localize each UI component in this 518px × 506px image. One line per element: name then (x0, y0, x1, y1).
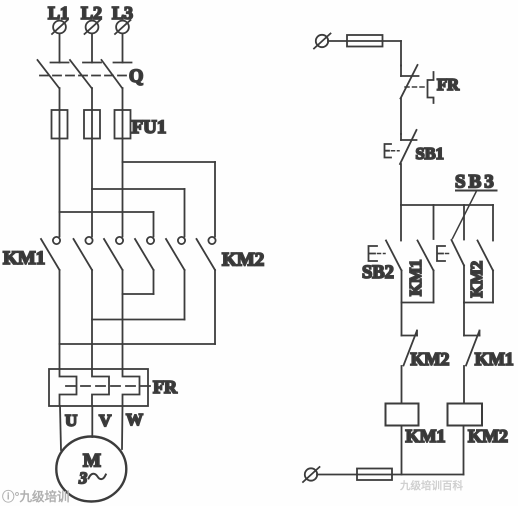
coil KM1 (386, 404, 419, 426)
svg-text:KM2: KM2 (411, 349, 450, 369)
contact KM2 interlock (NC) (402, 331, 418, 366)
svg-text:KM1: KM1 (3, 248, 45, 269)
wire L3 to switch (122, 34, 124, 63)
label KM2 aux (rotated) (467, 261, 486, 298)
watermark bottom-right (399, 479, 463, 492)
wire coil KM1 to bottom rail (401, 426, 403, 475)
svg-text:ⓘ°九级培训: ⓘ°九级培训 (2, 489, 70, 504)
switch Q mechanical link (dashed) (40, 75, 131, 77)
label SB3 with underline and pointer (453, 172, 497, 239)
label SB2 (362, 263, 394, 283)
wire KM1 interlock to coil (463, 366, 465, 404)
svg-text:3: 3 (78, 469, 87, 488)
button SB3 (NO pushbutton) (437, 240, 464, 266)
wire bottom rail (392, 474, 464, 476)
wire KM2 out 1 merge (123, 270, 154, 294)
wire terminal to fuse FU3 (317, 474, 357, 476)
svg-text:SB2: SB2 (362, 263, 394, 283)
wire rail drop KM1 aux (433, 205, 435, 239)
terminal L3 (115, 20, 131, 34)
contactor KM2 main contact 2 (166, 237, 185, 270)
wire rail drop SB2 (400, 205, 402, 241)
svg-text:V: V (99, 411, 112, 430)
contactor KM1 main contact 1 (41, 237, 60, 270)
contactor KM1 main contact 3 (104, 237, 123, 270)
label U (65, 411, 77, 430)
wire pole1 to fuse (59, 88, 61, 110)
FR mechanical link (dashed) (66, 385, 152, 387)
wire fuse to control column (383, 41, 402, 66)
wire SB2 branch join (402, 271, 434, 303)
wire terminal to fuse FU2 (328, 40, 347, 42)
wire FR to motor U (60, 406, 61, 450)
watermark bottom-left (2, 489, 70, 504)
fuse FU1-3 (115, 110, 131, 139)
terminal L2 (85, 20, 101, 34)
wire KM1 out 3 down to FR (122, 270, 124, 369)
fuse FU2 (347, 35, 383, 47)
wire FR to motor W (121, 406, 124, 449)
svg-text:Q: Q (129, 67, 143, 87)
wire FR to SB1 (400, 99, 402, 135)
label coil KM1 (406, 426, 446, 446)
terminal L1 (52, 20, 68, 34)
wire SB3 branch join (464, 266, 493, 303)
wire KM2 out 2 merge (92, 270, 185, 320)
wire phase A down to KM1 contact 1 (59, 139, 61, 237)
svg-text:KM1: KM1 (406, 259, 425, 296)
wire phase C down to KM1 contact 3 (122, 139, 124, 237)
contact KM1 aux (NO) (418, 241, 434, 271)
fuse FU1-2 (84, 110, 100, 139)
wire KM2 out 3 merge (60, 270, 216, 344)
FR heater element 3 (123, 369, 140, 406)
button SB2 (NO pushbutton) (369, 241, 402, 271)
fuse FU3 (357, 469, 392, 481)
svg-text:KM2: KM2 (222, 250, 264, 271)
label KM1 (3, 248, 45, 269)
svg-text:KM2: KM2 (468, 426, 508, 446)
contact KM1 interlock (NC) (464, 331, 480, 366)
contactor KM1 main contact 2 (74, 237, 93, 270)
wire KM1 out 1 down to FR (59, 270, 61, 369)
node L3 (112, 3, 133, 23)
label FU1 (132, 117, 167, 138)
wire KM1 out 2 down to FR (91, 270, 93, 369)
label KM2 (222, 250, 264, 271)
contact FR (NC, thermal) (401, 65, 419, 99)
FR heater element 1 (60, 369, 77, 406)
svg-text:KM1: KM1 (475, 349, 514, 369)
wire tap phase B to KM2 pole 2 (92, 189, 185, 237)
svg-text:KM1: KM1 (406, 426, 446, 446)
label KM1 aux (rotated) (406, 259, 425, 296)
wire rail drop KM2 aux (492, 205, 494, 241)
switch Q pole 1 (38, 60, 69, 88)
wire pole2 to fuse (91, 88, 93, 110)
svg-text:U: U (65, 411, 77, 430)
label W (126, 410, 143, 429)
FR heater element 2 (92, 369, 109, 406)
thermal relay FR box (49, 369, 148, 406)
fuse FU1-1 (52, 110, 68, 139)
contact KM2 aux (NO) (478, 241, 494, 271)
wire coil KM2 to bottom rail (463, 426, 465, 475)
svg-text:FR: FR (153, 377, 178, 397)
control terminal top (314, 34, 331, 49)
svg-text:FR: FR (437, 75, 460, 94)
switch Q pole 3 (102, 60, 132, 88)
motor M circle (56, 437, 126, 502)
label SB1 (416, 144, 444, 163)
contactor KM2 main contact 1 (135, 237, 154, 270)
contactor KM2 main contact 3 (197, 237, 216, 270)
label KM2 interlock (411, 349, 450, 369)
coil KM2 (448, 404, 483, 426)
label FR (control) (437, 75, 460, 94)
label M 3~ (78, 451, 106, 488)
wire tap phase C to KM2 pole 3 (123, 162, 216, 237)
control terminal bottom (303, 467, 320, 482)
label FR (153, 377, 178, 397)
FR trip actuator bracket (405, 72, 434, 103)
wire L1 to switch (59, 34, 61, 63)
svg-text:SB1: SB1 (416, 144, 444, 163)
wire L2 to switch (91, 34, 93, 63)
label V (99, 411, 112, 430)
node L2 (81, 3, 102, 23)
label KM1 interlock (475, 349, 514, 369)
wire pole3 to fuse (122, 88, 124, 110)
wire left branch down (401, 303, 403, 336)
wire tap phase A to KM2 pole 1 (60, 212, 154, 237)
node L1 (48, 3, 69, 23)
wire branch rail (401, 204, 493, 206)
label Q (129, 67, 143, 87)
svg-text:W: W (126, 410, 143, 429)
wire SB1 to rail (400, 164, 402, 205)
switch Q pole 2 (70, 60, 101, 88)
wire right branch down (463, 303, 465, 336)
svg-text:九级培训百科: 九级培训百科 (399, 479, 463, 492)
wire FR to motor V (91, 406, 93, 437)
wire KM2 interlock to coil (401, 366, 403, 404)
wire rail drop SB3 (463, 205, 465, 240)
svg-text:FU1: FU1 (132, 117, 167, 138)
wire phase B down to KM1 contact 2 (91, 139, 93, 237)
button SB1 (NC pushbutton) (385, 130, 417, 164)
label coil KM2 (468, 426, 508, 446)
svg-text:KM2: KM2 (467, 261, 486, 298)
svg-text:SB3: SB3 (455, 172, 497, 193)
